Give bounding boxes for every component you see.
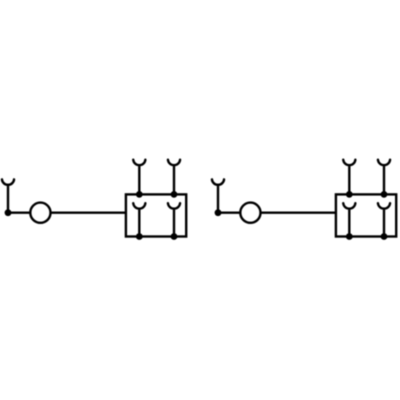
wire: left fork junction to box, unit 1 [8,211,126,213]
top clamp contact fork 2, unit 1 [168,160,180,195]
test socket circle, unit 2 [240,203,260,223]
wire: left fork junction to box, unit 2 [218,211,336,213]
top clamp contact fork 1, unit 1 [133,160,145,195]
clamp contact fork, feed-through side, unit 2 [212,179,224,212]
junction box, unit 2 [336,194,396,236]
node dot top edge contact 2, unit 1 [171,191,178,198]
node dot bottom edge contact 1, unit 2 [346,233,353,240]
clamp contact fork, feed-through side, unit 1 [2,179,14,212]
node dot top edge contact 1, unit 1 [136,191,143,198]
inner clamp contact fork 1, unit 1 [133,203,145,236]
junction dot at left fork, unit 2 [215,209,222,216]
node dot top edge contact 2, unit 2 [381,191,388,198]
junction dot at left fork, unit 1 [5,209,12,216]
node dot bottom edge contact 1, unit 1 [136,233,143,240]
inner clamp contact fork 2, unit 2 [378,203,390,236]
top clamp contact fork 1, unit 2 [343,160,355,195]
inner clamp contact fork 2, unit 1 [168,203,180,236]
junction box, unit 1 [126,194,186,236]
node dot top edge contact 1, unit 2 [346,191,353,198]
inner clamp contact fork 1, unit 2 [343,203,355,236]
top clamp contact fork 2, unit 2 [378,160,390,195]
node dot bottom edge contact 2, unit 2 [381,233,388,240]
test socket circle, unit 1 [30,203,50,223]
node dot bottom edge contact 2, unit 1 [171,233,178,240]
